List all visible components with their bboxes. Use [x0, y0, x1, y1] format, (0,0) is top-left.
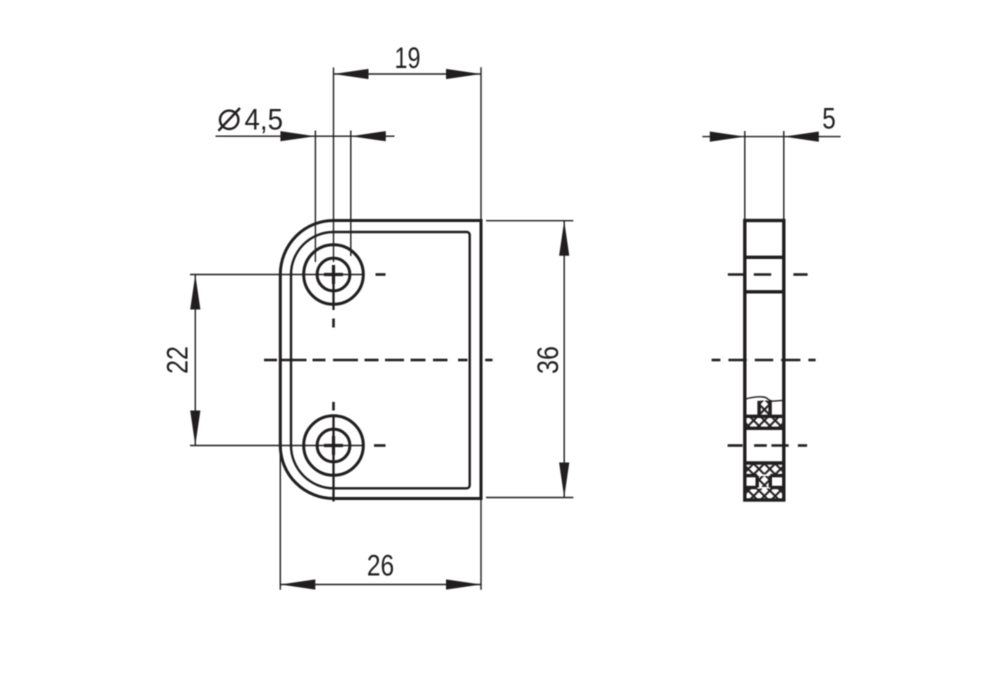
svg-text:26: 26 — [367, 549, 394, 582]
svg-text:5: 5 — [822, 103, 836, 136]
svg-text:4,5: 4,5 — [245, 104, 284, 137]
svg-text:19: 19 — [395, 42, 421, 75]
svg-text:22: 22 — [162, 346, 195, 374]
svg-text:36: 36 — [532, 346, 565, 374]
